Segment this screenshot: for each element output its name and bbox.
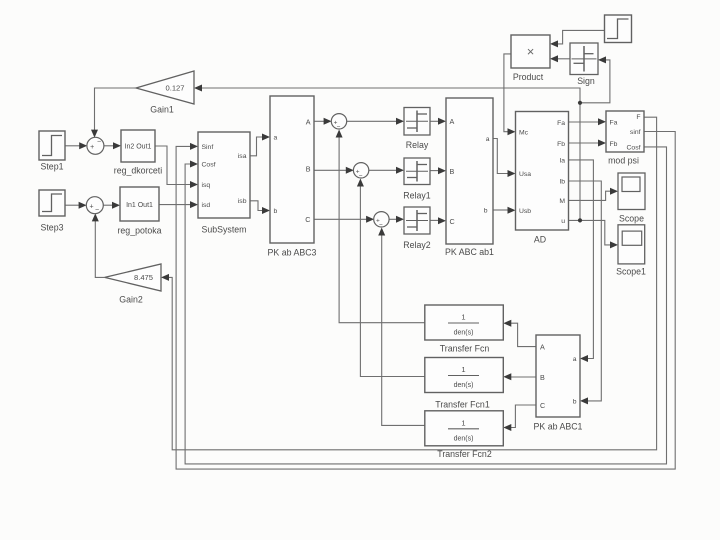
svg-text:A: A — [450, 117, 455, 126]
svg-text:Fa: Fa — [557, 120, 565, 127]
svg-text:A: A — [540, 343, 545, 352]
svg-text:Fa: Fa — [610, 119, 618, 126]
svg-text:+: + — [90, 144, 94, 151]
svg-text:a: a — [274, 135, 278, 142]
svg-text:B: B — [306, 164, 311, 173]
svg-text:×: × — [527, 44, 535, 59]
svg-text:PK ab ABC3: PK ab ABC3 — [268, 248, 317, 258]
svg-text:Fb: Fb — [557, 141, 565, 148]
svg-text:a: a — [573, 356, 577, 363]
svg-text:Cosf: Cosf — [202, 162, 216, 169]
svg-text:Gain1: Gain1 — [150, 105, 174, 115]
svg-text:PK ab ABC1: PK ab ABC1 — [534, 422, 583, 432]
svg-text:Cosf: Cosf — [627, 145, 641, 152]
svg-text:reg_dkorceti: reg_dkorceti — [114, 166, 162, 176]
svg-text:Transfer Fcn1: Transfer Fcn1 — [435, 400, 490, 410]
svg-text:1: 1 — [461, 365, 465, 374]
svg-text:0.127: 0.127 — [165, 84, 184, 93]
svg-text:−: − — [95, 207, 99, 214]
svg-text:Relay: Relay — [406, 140, 429, 150]
svg-text:reg_potoka: reg_potoka — [117, 226, 161, 236]
svg-text:isd: isd — [202, 202, 211, 209]
svg-text:mod psi: mod psi — [608, 156, 639, 166]
svg-text:SubSystem: SubSystem — [202, 225, 247, 235]
svg-text:b: b — [573, 398, 577, 405]
svg-text:Transfer Fcn2: Transfer Fcn2 — [437, 449, 492, 459]
svg-text:a: a — [486, 136, 490, 143]
svg-text:−: − — [337, 124, 341, 131]
svg-text:Sign: Sign — [577, 76, 595, 86]
svg-text:In2 Out1: In2 Out1 — [125, 143, 152, 150]
svg-text:In1 Out1: In1 Out1 — [126, 202, 153, 209]
svg-text:isq: isq — [202, 182, 211, 189]
svg-text:b: b — [274, 208, 278, 215]
svg-text:Step1: Step1 — [41, 162, 64, 172]
svg-text:C: C — [540, 401, 545, 410]
svg-text:M: M — [559, 198, 565, 205]
svg-text:den(s): den(s) — [454, 382, 474, 389]
svg-text:+: + — [90, 203, 94, 210]
svg-text:8.475: 8.475 — [134, 273, 153, 282]
svg-text:PK ABC ab1: PK ABC ab1 — [445, 247, 494, 257]
svg-text:Product: Product — [513, 72, 544, 82]
svg-text:Usa: Usa — [519, 171, 531, 178]
svg-text:1: 1 — [461, 418, 465, 427]
svg-text:Relay1: Relay1 — [403, 191, 430, 201]
svg-text:Transfer Fcn: Transfer Fcn — [440, 344, 490, 354]
svg-text:Scope1: Scope1 — [616, 267, 646, 277]
svg-text:AD: AD — [534, 235, 546, 245]
svg-text:Step3: Step3 — [41, 223, 64, 233]
svg-text:A: A — [306, 117, 311, 126]
svg-text:Ia: Ia — [559, 158, 565, 165]
svg-text:isa: isa — [238, 153, 247, 160]
svg-text:Relay2: Relay2 — [403, 240, 430, 250]
svg-text:isb: isb — [238, 198, 247, 205]
svg-text:den(s): den(s) — [454, 330, 474, 337]
svg-text:F: F — [636, 114, 640, 121]
svg-text:−: − — [97, 138, 101, 145]
svg-text:Mc: Mc — [519, 129, 529, 136]
svg-text:−: − — [379, 222, 383, 229]
svg-text:Ib: Ib — [559, 179, 565, 186]
svg-text:sinf: sinf — [630, 129, 641, 136]
svg-text:1: 1 — [461, 313, 465, 322]
svg-text:b: b — [484, 208, 488, 215]
svg-text:B: B — [450, 167, 455, 176]
svg-text:Fb: Fb — [610, 141, 618, 148]
svg-text:C: C — [450, 217, 455, 226]
svg-text:Sinf: Sinf — [202, 144, 214, 151]
svg-text:Usb: Usb — [519, 208, 531, 215]
svg-text:u: u — [561, 218, 565, 225]
svg-text:B: B — [540, 373, 545, 382]
svg-text:Gain2: Gain2 — [119, 295, 143, 305]
svg-text:−: − — [359, 173, 363, 180]
svg-text:Scope: Scope — [619, 214, 644, 224]
svg-text:C: C — [305, 215, 310, 224]
svg-text:den(s): den(s) — [454, 435, 474, 442]
